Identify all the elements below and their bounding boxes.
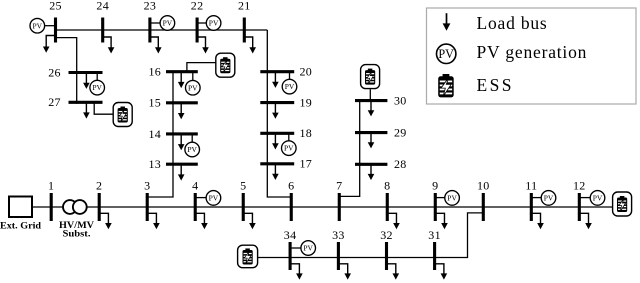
svg-text:15: 15 (148, 96, 161, 110)
svg-text:1: 1 (48, 178, 54, 192)
wire main feeder bus1-bus12 to ESS (32, 206, 613, 208)
svg-text:6: 6 (288, 178, 294, 192)
load arrow bus 33 (338, 264, 351, 280)
load arrow bus 19 (272, 103, 279, 119)
svg-text:12: 12 (573, 178, 586, 192)
PV generation at bus 23 (160, 16, 175, 31)
load arrow bus 21 (244, 37, 256, 54)
bus 24 busbar (101, 18, 104, 43)
wire bus25 to bus26-27 branch (56, 38, 77, 104)
svg-text:25: 25 (49, 0, 62, 13)
wire bus 25 to PV (45, 25, 56, 27)
load arrow bus 29 (368, 133, 375, 149)
svg-text:PV: PV (33, 21, 43, 30)
svg-text:2: 2 (96, 178, 102, 192)
bus 14 busbar (166, 132, 198, 135)
wire top feeder bus25-bus21-corner (56, 29, 268, 31)
wire bus 34 to PV (290, 247, 301, 249)
load arrow bus 9 (435, 213, 448, 229)
load arrow bus 22 (197, 37, 209, 54)
load arrow bus 25 (43, 36, 56, 53)
svg-text:30: 30 (394, 94, 407, 108)
wire chain bus16-bus13 to bus 3 (146, 72, 173, 197)
svg-text:PV: PV (92, 83, 102, 92)
bus 28 busbar (355, 163, 387, 166)
bus 2 busbar (98, 193, 101, 221)
bus 25 busbar (54, 18, 57, 43)
bus 3 busbar (146, 193, 149, 221)
PV generation at bus 12 (590, 191, 605, 206)
bus 8 busbar (386, 193, 389, 221)
wire ESS to bus 30 (369, 89, 371, 100)
legend PV symbol (437, 44, 456, 63)
svg-text:10: 10 (477, 178, 490, 192)
bus 22 busbar (196, 18, 199, 43)
bus 13 busbar (166, 163, 198, 166)
bus 16 busbar (166, 70, 198, 73)
PV generation at bus 4 (206, 191, 221, 206)
wire bus 9 to PV (435, 197, 446, 199)
wire bus 18 to PV (288, 133, 290, 142)
svg-text:34: 34 (284, 228, 297, 242)
load arrow bus 5 (243, 213, 256, 229)
bus 7 busbar (338, 193, 341, 221)
wire bus 27 to ESS (94, 102, 114, 114)
load arrow bus 11 (531, 213, 544, 229)
bus 18 busbar (260, 132, 294, 135)
load arrow bus 26 (83, 73, 90, 89)
PV generation at bus 20 (282, 79, 297, 94)
load arrow bus 20 (272, 72, 279, 88)
bus 12 busbar (578, 193, 581, 221)
load arrow bus 18 (272, 133, 279, 149)
PV generation at bus 9 (445, 191, 460, 206)
wire bus 12 to PV (579, 197, 591, 199)
wire bus 20 to PV (289, 72, 291, 81)
svg-text:PV: PV (593, 193, 603, 202)
bus 1 busbar (50, 193, 53, 221)
ESS at bus 34 (238, 245, 258, 268)
PV generation at bus 22 (206, 16, 221, 31)
legend box (427, 8, 637, 104)
PV generation at bus 11 (541, 191, 556, 206)
svg-text:23: 23 (144, 0, 157, 13)
wire bus 4 to PV (195, 197, 207, 199)
wire bus 16 to ESS (187, 63, 217, 72)
svg-text:28: 28 (394, 157, 407, 171)
svg-text:PV: PV (163, 19, 173, 28)
load arrow bus 31 (435, 264, 448, 280)
legend load arrow symbol (443, 13, 451, 31)
load arrow bus 8 (387, 213, 400, 229)
bus 26 busbar (69, 71, 103, 74)
load arrow bus 12 (579, 213, 592, 229)
svg-text:Ext. Grid: Ext. Grid (0, 222, 42, 232)
svg-text:14: 14 (148, 127, 161, 141)
load arrow bus 30 (368, 101, 375, 117)
svg-text:17: 17 (300, 157, 313, 171)
bus 5 busbar (242, 193, 245, 221)
load arrow bus 16 (178, 72, 185, 88)
load arrow bus 24 (103, 37, 115, 54)
wire bus 16 to PV (192, 72, 194, 82)
bus 4 busbar (194, 193, 197, 221)
bus 17 busbar (260, 162, 294, 165)
wire bus 11 to PV (531, 197, 542, 199)
svg-text:ESS: ESS (477, 75, 514, 95)
svg-text:27: 27 (48, 95, 61, 109)
wire bus 14 to PV (191, 134, 193, 143)
wire bus 22 to PV (197, 22, 208, 24)
wire bus 26 to PV (96, 73, 98, 82)
load arrow bus 3 (147, 213, 160, 229)
svg-text:PV: PV (209, 193, 219, 202)
svg-text:PV: PV (303, 244, 313, 253)
PV generation at bus 18 (282, 141, 297, 156)
load arrow bus 34 (290, 264, 303, 280)
svg-text:PV: PV (285, 82, 295, 91)
bus 33 busbar (337, 242, 340, 270)
PV generation at bus 34 (301, 241, 316, 256)
bus 27 busbar (69, 101, 103, 104)
load arrow bus 27 (83, 102, 90, 118)
load arrow bus 2 (99, 213, 112, 229)
svg-text:11: 11 (525, 178, 537, 192)
PV generation at bus 16 (186, 80, 201, 95)
svg-text:32: 32 (380, 228, 393, 242)
svg-text:PV: PV (187, 145, 197, 154)
bus 30 busbar (355, 99, 387, 102)
bus 11 busbar (530, 193, 533, 221)
svg-text:Subst.: Subst. (63, 230, 91, 240)
svg-text:PV: PV (544, 193, 554, 202)
ESS at bus 12 (613, 192, 632, 216)
svg-text:26: 26 (48, 65, 61, 79)
PV generation at bus 26 (90, 80, 105, 95)
load arrow bus 32 (387, 264, 400, 280)
load arrow bus 4 (195, 213, 208, 229)
bus 21 busbar (243, 18, 246, 43)
bus 34 busbar (289, 242, 292, 270)
svg-text:PV: PV (284, 144, 294, 153)
load arrow bus 13 (178, 164, 185, 180)
wire bus 23 to PV (150, 22, 162, 24)
wire chain bus30-bus28 to bus 7 (338, 101, 359, 197)
ESS at bus 27 (113, 103, 132, 127)
load arrow bus 23 (150, 37, 162, 54)
load arrow bus 14 (178, 134, 185, 150)
load arrow bus 28 (368, 164, 375, 180)
svg-text:31: 31 (428, 228, 441, 242)
legend ESS symbol (438, 74, 454, 97)
svg-text:20: 20 (300, 65, 313, 79)
bus 9 busbar (434, 193, 437, 221)
svg-text:Load bus: Load bus (477, 13, 548, 33)
load arrow bus 17 (272, 164, 279, 180)
PV generation at bus 14 (185, 142, 200, 157)
svg-text:PV: PV (438, 47, 454, 61)
bus 29 busbar (355, 131, 387, 134)
svg-text:9: 9 (432, 178, 438, 192)
svg-text:33: 33 (332, 228, 345, 242)
svg-text:18: 18 (300, 126, 313, 140)
bus 19 busbar (260, 101, 294, 104)
svg-text:PV: PV (447, 193, 457, 202)
svg-text:13: 13 (148, 157, 161, 171)
svg-text:PV: PV (188, 83, 198, 92)
wire bus 10 to bottom branch (258, 213, 484, 258)
svg-text:22: 22 (191, 0, 204, 13)
svg-text:16: 16 (148, 65, 161, 79)
svg-text:8: 8 (384, 178, 390, 192)
bus 6 busbar (290, 193, 293, 221)
svg-text:PV: PV (209, 19, 219, 28)
external grid source (9, 197, 32, 218)
bus 23 busbar (148, 18, 151, 43)
wire riser to bus20 chain and bus 6 (267, 30, 292, 197)
transformer HV/MV T1 (63, 200, 87, 214)
bus 31 busbar (433, 242, 436, 270)
bus 32 busbar (385, 242, 388, 270)
svg-text:PV generation: PV generation (477, 42, 588, 62)
svg-text:24: 24 (96, 0, 109, 13)
svg-text:3: 3 (144, 178, 150, 192)
bus 20 busbar (260, 70, 294, 73)
svg-text:4: 4 (192, 178, 198, 192)
PV generation at bus 25 (30, 18, 45, 33)
ESS at bus 16 (216, 53, 235, 77)
svg-text:5: 5 (240, 178, 246, 192)
load arrow bus 15 (178, 103, 185, 119)
svg-text:29: 29 (394, 126, 407, 140)
ESS at bus 30 (361, 65, 380, 89)
bus 10 busbar (482, 193, 485, 221)
svg-text:7: 7 (336, 178, 342, 192)
svg-text:19: 19 (300, 96, 313, 110)
bus 15 busbar (166, 101, 198, 104)
svg-text:21: 21 (238, 0, 251, 13)
